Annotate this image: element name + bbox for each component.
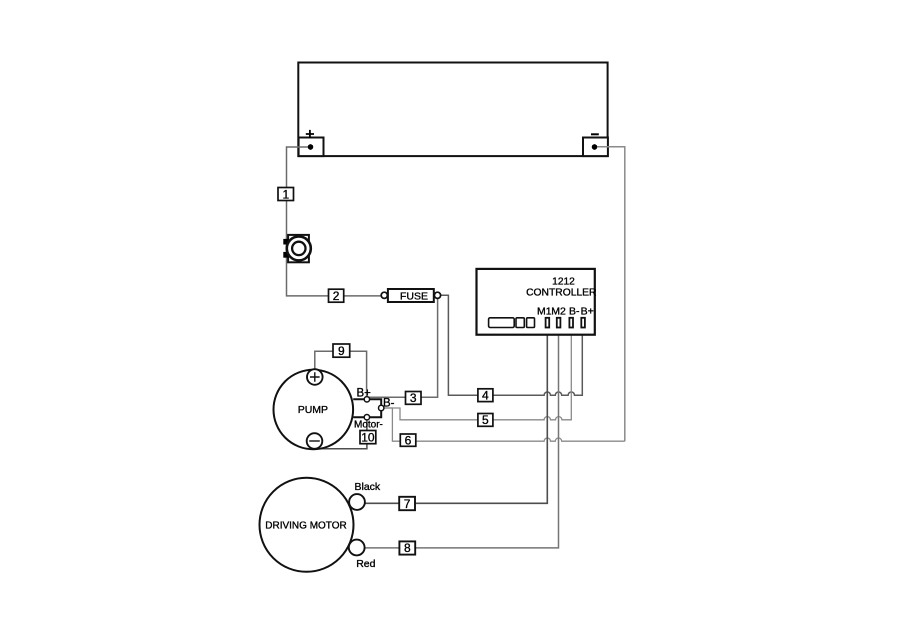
svg-text:5: 5 [482,413,489,427]
svg-text:8: 8 [404,541,411,555]
node pump B- [379,405,384,410]
wire controller B- to pump B- via callout 5 [381,335,571,420]
svg-text:M2: M2 [551,305,566,317]
callout 5 [478,414,493,427]
wire fuse to pump B+ via callout 3 [367,298,438,397]
svg-text:3: 3 [410,391,417,405]
svg-text:10: 10 [361,430,375,444]
wire fuse to controller B+ via callout 4 [441,295,583,395]
battery positive terminal [299,138,324,157]
battery negative terminal [583,138,608,157]
controller pin M1 [546,318,550,328]
driving motor [260,478,365,572]
callout 7 [399,497,415,510]
svg-text:M1: M1 [537,305,552,317]
controller pin B+ [581,318,585,328]
callout 3 [406,392,422,405]
node pump B+ [364,397,369,402]
svg-text:B+: B+ [581,305,594,317]
svg-text:Red: Red [356,558,375,570]
callout 1 [278,188,294,201]
callout 8 [399,541,415,554]
battery [298,63,607,157]
svg-text:CONTROLLER: CONTROLLER [526,288,596,299]
pump minus terminal [307,433,323,449]
svg-text:Motor-: Motor- [354,419,383,430]
svg-text:1: 1 [282,187,289,201]
wire controller M1 to driving motor black via callout 7 [365,335,547,503]
svg-text:1212: 1212 [552,277,575,288]
svg-text:B+: B+ [357,388,372,400]
controller pin M2 [557,318,561,328]
key switch [283,235,311,262]
pump motor [274,369,354,449]
svg-text:B-: B- [383,398,395,410]
pump plus terminal [307,369,323,385]
motor red terminal [349,540,365,556]
wire battery positive to key switch to fuse [287,147,385,296]
battery plus sign [306,130,314,138]
wire controller M2 to driving motor red via callout 8 [365,335,559,548]
svg-text:B-: B- [569,305,580,317]
svg-text:4: 4 [482,389,489,403]
motor black terminal [349,494,365,510]
fuse F1 [381,289,440,303]
wire pump minus to Motor- node via callout 10 [315,417,367,449]
controller pin B- [569,318,573,328]
callout 9 [333,344,350,357]
callout 4 [478,389,493,402]
svg-text:DRIVING MOTOR: DRIVING MOTOR [265,520,346,531]
svg-text:FUSE: FUSE [400,291,428,303]
svg-text:7: 7 [404,497,411,511]
wire pump B- to battery negative via callout 6 [381,408,625,441]
wire battery negative down right side [595,147,625,441]
controller connector blocks [489,318,515,328]
svg-text:2: 2 [333,289,340,303]
node pump Motor- [364,415,369,420]
svg-text:PUMP: PUMP [298,404,328,416]
svg-text:9: 9 [338,344,345,358]
svg-text:Black: Black [355,481,381,493]
controller U1 [477,269,597,335]
battery minus sign [591,133,599,135]
wire pump plus to B+ node via callout 9 [315,351,367,399]
callout 2 [329,289,344,302]
svg-text:6: 6 [405,433,412,447]
callout 10 [360,431,376,444]
pump terminal bracket [353,399,381,417]
callout 6 [400,434,416,446]
